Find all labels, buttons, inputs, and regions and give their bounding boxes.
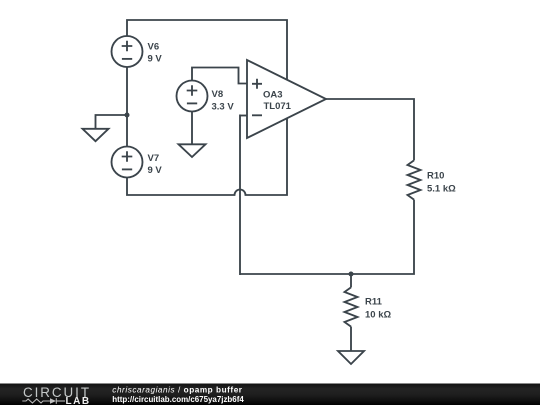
node A junction dot — [125, 113, 130, 118]
svg-text:9 V: 9 V — [148, 165, 163, 176]
label OA3 TL071 — [263, 89, 292, 112]
voltage source V7 — [112, 147, 143, 178]
label V7 value — [148, 153, 163, 176]
wire node A to V7 — [126, 114, 128, 147]
voltage source V6 — [112, 36, 143, 67]
ground near V6/V7 — [83, 129, 109, 141]
ground below R11 — [338, 351, 364, 364]
wire node B to R11 — [350, 274, 352, 287]
wire R11 bottom lead — [350, 327, 352, 351]
wire R10 bottom and feedback rail to node B — [240, 200, 414, 274]
svg-text:http://circuitlab.com/c675ya7j: http://circuitlab.com/c675ya7jzb6f4 — [112, 395, 244, 404]
footer bar — [0, 384, 540, 405]
svg-text:V7: V7 — [148, 153, 160, 164]
wire feedback vertical — [239, 115, 241, 276]
label V8 value — [212, 89, 235, 112]
label V6 value — [148, 42, 163, 65]
resistor R11 — [345, 287, 358, 326]
ground below V8 — [179, 144, 206, 157]
svg-text:9 V: 9 V — [148, 54, 163, 65]
wire top rail: V6 top lead to op-amp V+ pin — [127, 20, 287, 80]
CircuitLab logo resistor-diode glyph — [22, 398, 65, 404]
voltage source V8 — [177, 81, 208, 112]
op-amp U OA3 triangle body — [247, 60, 326, 138]
svg-text:V8: V8 — [212, 89, 224, 100]
op-amp + input symbol — [252, 79, 262, 89]
svg-text:TL071: TL071 — [264, 101, 292, 112]
wire node A to ground stub — [96, 115, 129, 129]
op-amp - input symbol — [252, 114, 262, 116]
svg-text:10 kΩ: 10 kΩ — [365, 310, 391, 321]
label R10 value — [427, 171, 456, 195]
svg-text:3.3 V: 3.3 V — [212, 101, 235, 112]
svg-text:5.1 kΩ: 5.1 kΩ — [427, 184, 456, 195]
wire - input stub — [240, 115, 247, 117]
wire bottom rail: V7 lead, hop over feedback, op-amp V- pin — [127, 119, 287, 196]
svg-text:OA3: OA3 — [263, 89, 283, 100]
svg-text:R10: R10 — [427, 171, 444, 182]
svg-text:chriscaragianis / opamp buffer: chriscaragianis / opamp buffer — [112, 385, 243, 394]
svg-text:R11: R11 — [365, 297, 383, 308]
svg-text:V6: V6 — [148, 42, 160, 53]
wire V6 bottom lead to node A — [126, 67, 128, 116]
resistor R10 — [408, 160, 421, 199]
label R11 value — [365, 297, 391, 321]
wire V8 top lead to + input — [192, 68, 247, 84]
node B junction dot — [349, 272, 354, 277]
svg-text:LAB: LAB — [66, 396, 91, 405]
wire V8 bottom lead — [191, 111, 193, 144]
wire op-amp output to R10 top — [326, 99, 414, 160]
